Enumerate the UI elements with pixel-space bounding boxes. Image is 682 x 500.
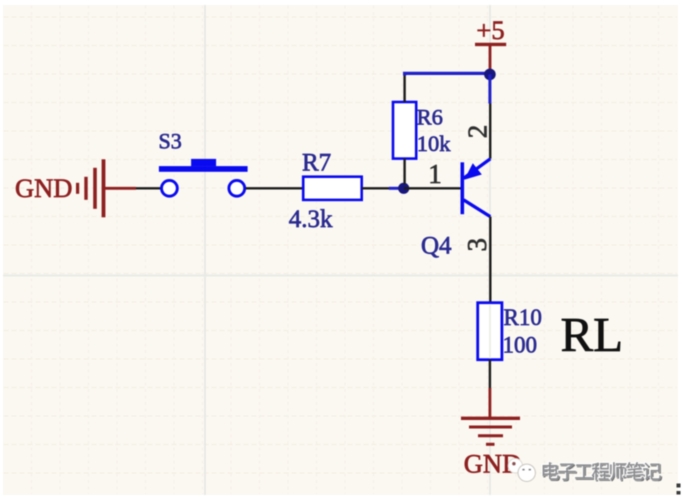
svg-text:R6: R6 <box>417 104 443 129</box>
resistor R7 <box>303 177 362 200</box>
ground GND (bottom) <box>461 418 521 478</box>
resistor R6 <box>393 102 416 159</box>
wire node to Q4 emitter pin <box>488 74 491 103</box>
svg-text:S3: S3 <box>159 129 182 154</box>
svg-text:3: 3 <box>462 238 492 252</box>
wire S3 to R7 <box>246 187 304 189</box>
wire blue stub at node <box>389 187 400 190</box>
svg-text:Q4: Q4 <box>421 233 452 260</box>
svg-text:4.3k: 4.3k <box>289 206 333 233</box>
watermark logo <box>508 459 535 482</box>
wire R6 to +5 node <box>405 73 490 75</box>
wire R6 top stub <box>403 75 405 103</box>
power port GND (left) <box>15 159 136 217</box>
svg-text:1: 1 <box>428 159 442 189</box>
svg-text:2: 2 <box>462 125 492 139</box>
watermark text <box>542 462 662 481</box>
junction node +5 <box>484 69 496 81</box>
resistor R10 <box>478 303 502 360</box>
power port +5 <box>475 15 506 70</box>
switch S3 <box>159 159 248 196</box>
wire Q4 collector to R10 <box>489 217 491 303</box>
svg-text:10k: 10k <box>417 131 452 156</box>
wire node to base <box>404 187 462 189</box>
junction node base <box>398 183 409 194</box>
wire R7 to node <box>362 187 389 189</box>
wire R6 bottom stub <box>403 159 405 184</box>
svg-text:+5: +5 <box>476 15 504 45</box>
svg-text:GND: GND <box>15 173 72 203</box>
wire GND to S3 <box>136 187 162 189</box>
wire red gnd stub <box>488 388 491 417</box>
wire R10 to GND <box>489 360 491 389</box>
artifact colon <box>677 484 681 488</box>
svg-text:R10: R10 <box>504 305 542 330</box>
transistor Q4 <box>462 159 490 217</box>
svg-text:100: 100 <box>503 333 538 358</box>
svg-text:RL: RL <box>561 307 624 362</box>
transistor Q4 pin 2 wire <box>489 104 491 159</box>
svg-text:R7: R7 <box>302 150 331 177</box>
